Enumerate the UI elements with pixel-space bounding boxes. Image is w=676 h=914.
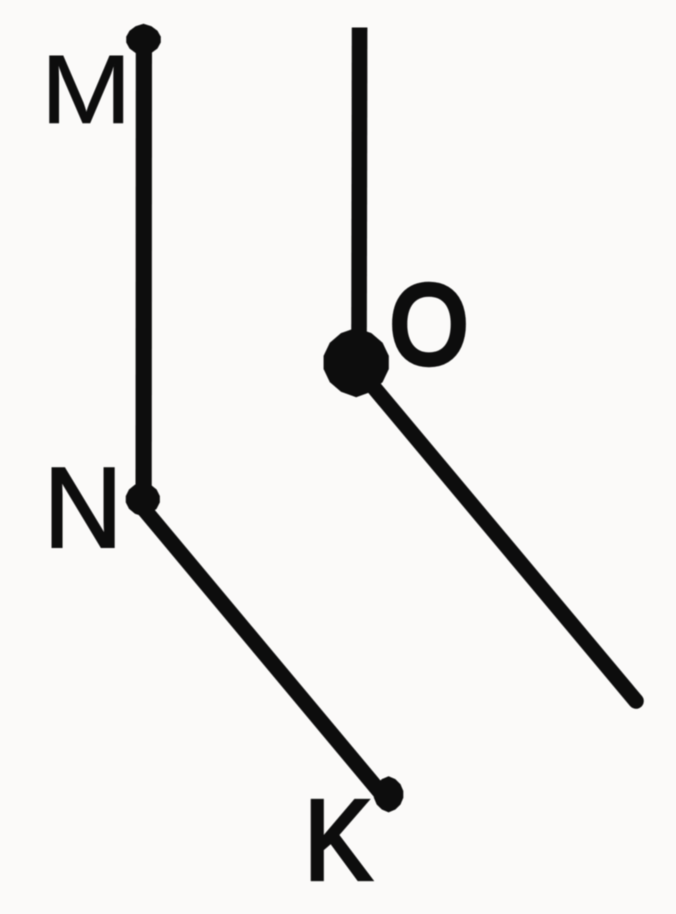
svg-text:N: N: [44, 444, 123, 572]
wire segment MN (vertical): [136, 40, 152, 499]
label M: [41, 34, 132, 143]
node N (junction dot): [126, 482, 160, 516]
svg-text:K: K: [304, 776, 371, 903]
svg-text:M: M: [41, 34, 132, 143]
wire segment above node O (vertical): [351, 28, 367, 363]
wire segment NK (diagonal): [136, 499, 383, 794]
wire segment from node O (diagonal ray): [353, 363, 636, 702]
label N: [44, 444, 123, 572]
node M (endpoint dot): [126, 24, 161, 56]
label O: [390, 263, 468, 387]
label K: [304, 776, 371, 903]
node O (large junction dot): [324, 328, 389, 398]
svg-text:O: O: [390, 263, 468, 387]
node K (endpoint dot): [374, 776, 403, 812]
